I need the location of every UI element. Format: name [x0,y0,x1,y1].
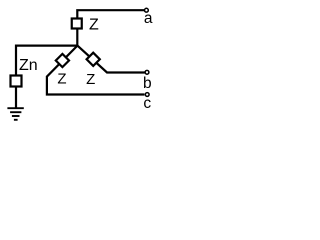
impedance Z (phase a) box [72,19,82,29]
wire: box Z down to star node [76,29,78,46]
wire phase c: star node diagonal down-left, down, and right to terminal c [47,46,144,95]
impedance Zn box [11,76,22,87]
svg-text:Zn: Zn [19,57,38,74]
impedance Z (phase c) diamond [56,54,69,67]
impedance Z (phase b) diamond [87,53,100,66]
svg-text:Z: Z [57,70,66,87]
terminal c (open circle) [145,93,149,97]
terminal a (open circle) [145,8,149,12]
svg-text:b: b [143,75,152,92]
wire phase a: from top of impedance box up and right to terminal a [77,10,144,18]
svg-text:Z: Z [89,17,99,34]
svg-text:Z: Z [86,71,95,88]
ground [7,108,23,120]
wire: star node left to neutral branch [16,46,77,75]
wire phase b: star node diagonal down-right then right to terminal b [77,46,144,73]
svg-text:c: c [143,95,151,112]
svg-text:a: a [144,10,153,27]
wire: Zn box down to ground [15,87,17,109]
terminal b (open circle) [145,70,149,74]
